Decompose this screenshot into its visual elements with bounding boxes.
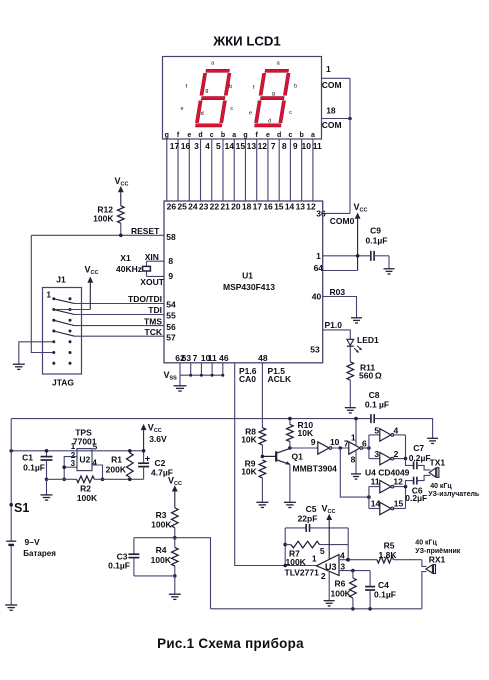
transistor Q1 MMBT3904 <box>262 448 290 464</box>
svg-text:7: 7 <box>271 141 276 151</box>
svg-text:13: 13 <box>296 202 306 212</box>
label J1 <box>56 275 66 285</box>
svg-text:12: 12 <box>306 202 316 212</box>
power Vcc arrow near pin 36 <box>354 202 368 271</box>
label RX1 <box>429 555 446 565</box>
svg-text:CA0: CA0 <box>239 374 256 384</box>
wire R8 to base node <box>261 445 265 458</box>
label R7 100K <box>286 548 307 567</box>
wire feedback left vertical <box>283 528 287 567</box>
wire inverter 10 to 7 <box>331 446 349 450</box>
label R3 100K <box>151 510 172 530</box>
svg-text:14: 14 <box>371 499 381 509</box>
LED LED1 <box>347 339 362 353</box>
svg-text:R4: R4 <box>156 545 167 555</box>
ultrasonic transmitter TX1 <box>429 468 439 478</box>
label pin 5 <box>374 425 379 435</box>
svg-text:RESET: RESET <box>131 226 160 236</box>
svg-text:c: c <box>230 106 233 112</box>
svg-text:+: + <box>145 454 151 465</box>
svg-text:a: a <box>311 132 315 139</box>
svg-text:16: 16 <box>181 141 191 151</box>
wire RESET down to JTAG <box>31 235 54 352</box>
svg-text:JTAG: JTAG <box>52 378 74 388</box>
svg-text:4: 4 <box>92 458 97 467</box>
svg-text:0.1µF: 0.1µF <box>23 463 45 473</box>
wire regulator bottom line <box>47 478 144 480</box>
svg-text:0.1 µF: 0.1 µF <box>365 400 389 410</box>
svg-text:4: 4 <box>394 425 399 435</box>
capacitor C3 <box>128 538 139 576</box>
svg-text:56: 56 <box>166 322 176 332</box>
svg-text:6: 6 <box>362 438 367 448</box>
svg-text:f: f <box>256 132 259 139</box>
label 9-V Батарея <box>23 537 56 558</box>
svg-text:11: 11 <box>371 477 380 487</box>
wire input inverter 14 <box>369 508 380 510</box>
label Q1 <box>292 451 304 461</box>
svg-text:VSS: VSS <box>164 370 178 382</box>
label LED1 <box>357 335 379 345</box>
wire COM0 pin 36 stub <box>323 212 350 214</box>
power Vcc arrow 3.6V <box>141 423 167 451</box>
svg-text:100K: 100K <box>151 520 172 530</box>
label pin 2 <box>394 449 399 459</box>
svg-text:2: 2 <box>394 449 399 459</box>
wire battery rail left <box>10 419 12 605</box>
svg-text:10: 10 <box>301 141 311 151</box>
svg-text:TDO/TDI: TDO/TDI <box>128 294 162 304</box>
pin number 9 <box>168 271 173 281</box>
wire Q1 emitter to ground <box>289 465 291 503</box>
label U3 pin 1 <box>312 554 317 564</box>
switch S1 <box>9 501 29 515</box>
wire R3 to divider node <box>173 528 177 540</box>
wire U3 pin 3 node <box>339 569 370 573</box>
svg-text:C9: C9 <box>370 226 381 236</box>
svg-text:40: 40 <box>312 291 322 301</box>
svg-text:X1: X1 <box>120 253 131 263</box>
svg-text:VCC: VCC <box>85 264 99 276</box>
label P1.5 ACLK <box>268 366 292 384</box>
wire pin 40 R03 <box>323 297 357 318</box>
wire pin 64 stub <box>323 270 358 272</box>
regulator U2 TPS77001 body <box>77 449 92 471</box>
pin number 56 <box>166 322 176 332</box>
wire node to C7 <box>406 459 414 466</box>
power Vcc arrow above U3 <box>322 503 336 559</box>
svg-text:3: 3 <box>340 561 345 571</box>
svg-text:0.1µF: 0.1µF <box>366 236 388 246</box>
svg-text:d: d <box>277 132 281 139</box>
ground below R9 <box>256 502 268 507</box>
label U3 <box>325 562 337 572</box>
label pin 12 <box>393 477 403 487</box>
ground at J1 <box>13 364 25 369</box>
ground below C9 <box>384 269 395 274</box>
svg-text:c: c <box>210 132 214 139</box>
svg-text:57: 57 <box>166 332 176 342</box>
svg-text:5: 5 <box>216 141 221 151</box>
wire C1 ground <box>46 479 48 495</box>
svg-text:MSP430F413: MSP430F413 <box>223 282 275 292</box>
J1 header pins <box>52 297 71 364</box>
svg-text:22pF: 22pF <box>298 514 318 524</box>
label pin 1 <box>351 432 356 442</box>
svg-text:0.1µF: 0.1µF <box>374 590 396 600</box>
resistor R4 <box>172 538 179 578</box>
label pin 7 <box>344 439 349 449</box>
svg-text:36: 36 <box>316 208 326 218</box>
svg-text:48: 48 <box>258 353 268 363</box>
svg-text:g: g <box>272 91 275 97</box>
svg-text:RX1: RX1 <box>429 555 446 565</box>
svg-text:a: a <box>211 61 215 67</box>
svg-text:f: f <box>253 85 255 91</box>
capacitor C6 <box>414 477 417 485</box>
svg-text:5: 5 <box>374 425 379 435</box>
svg-text:0.2µF: 0.2µF <box>405 493 427 503</box>
label C4 0.1uF <box>374 580 396 599</box>
svg-text:C5: C5 <box>306 504 317 514</box>
wire U4 Vdd pin 1 <box>354 417 358 445</box>
caption Рис.1 Схема прибора <box>157 636 304 651</box>
wire to RX1 top <box>422 560 427 567</box>
battery 9V <box>6 541 16 545</box>
J1 switch contacts to JTAG wires <box>54 299 75 336</box>
label R2 100K <box>77 483 98 503</box>
LCD digit 2 segment letters <box>249 61 297 125</box>
wire R12 to RESET line <box>120 223 122 235</box>
pin number 58 <box>166 232 176 242</box>
svg-text:7: 7 <box>344 439 349 449</box>
label JTAG <box>52 378 74 388</box>
label U3 pin 4 <box>340 551 345 561</box>
label C6 0.2uF <box>405 485 427 502</box>
wire input inverter 11 <box>369 486 380 488</box>
wire COM vertical to COM0 <box>349 78 351 213</box>
label pin 18 COM <box>322 106 342 130</box>
ground below U3 <box>324 601 335 606</box>
op-amp U3 TLV2771 <box>317 555 340 576</box>
LCD pin letters row <box>165 132 315 139</box>
svg-text:U3: U3 <box>325 562 337 572</box>
svg-text:XIN: XIN <box>145 252 159 262</box>
wire R10 top <box>288 417 292 425</box>
pin 1 marker J1 <box>47 290 52 299</box>
LCD pin numbers <box>170 141 322 151</box>
svg-text:g: g <box>205 88 208 94</box>
wire C7 to TX1 <box>417 465 431 470</box>
wire COM1 from LCD <box>322 77 351 79</box>
LCD digit 2 (7-segment) <box>254 69 291 127</box>
svg-text:25: 25 <box>177 202 187 212</box>
wire outputs 4 and 2 join <box>393 435 408 461</box>
capacitor C4 <box>365 571 375 609</box>
resistor R6 <box>350 571 357 609</box>
wire R9 to ground <box>261 478 263 502</box>
label MMBT3904 <box>293 463 338 473</box>
wire feedback right vertical <box>346 528 350 562</box>
label P1.6 CA0 <box>239 366 257 384</box>
svg-text:10K: 10K <box>241 435 257 445</box>
svg-text:b: b <box>300 132 304 139</box>
label C1 0.1uF <box>22 453 45 473</box>
svg-text:b: b <box>229 84 232 90</box>
pin number 53 <box>310 345 320 355</box>
wire R5 to RX1 <box>394 559 422 561</box>
svg-text:4: 4 <box>205 141 210 151</box>
wire TDI <box>75 314 165 316</box>
svg-text:C8: C8 <box>369 390 380 400</box>
ground below Vss <box>174 386 187 391</box>
svg-text:d: d <box>201 111 204 117</box>
LCD digit 1 (7-segment) <box>195 69 232 127</box>
svg-text:3.6V: 3.6V <box>149 434 167 444</box>
label U3 pin 2 <box>321 571 326 581</box>
resistor R11 <box>347 362 354 380</box>
svg-text:ЖКИ LCD1: ЖКИ LCD1 <box>212 33 281 48</box>
svg-text:3: 3 <box>71 459 76 468</box>
wire TCK <box>75 335 165 337</box>
svg-text:18: 18 <box>242 202 252 212</box>
svg-text:R1: R1 <box>111 455 122 465</box>
ground right of C8 <box>427 438 438 443</box>
svg-text:26: 26 <box>167 202 177 212</box>
wire P1.6 CA0 to op-amp <box>235 363 317 566</box>
inverter U4 11-12 <box>380 480 394 492</box>
ground below U4 pin 8 <box>351 474 361 479</box>
wire COM18 from LCD <box>322 117 352 121</box>
wire bias bus <box>211 607 422 611</box>
svg-text:8: 8 <box>168 256 173 266</box>
svg-text:COM: COM <box>322 120 342 130</box>
svg-text:P1.0: P1.0 <box>325 320 343 330</box>
svg-text:a: a <box>277 61 281 67</box>
svg-text:8: 8 <box>282 141 287 151</box>
wire U2 pin 4 <box>92 465 104 481</box>
svg-text:TDI: TDI <box>148 305 162 315</box>
pin number 64 <box>314 263 324 273</box>
wire J1 ground pin <box>19 342 54 364</box>
svg-text:d: d <box>268 118 271 124</box>
svg-text:560 Ω: 560 Ω <box>359 370 382 380</box>
label R03 <box>330 287 346 297</box>
svg-text:23: 23 <box>199 202 209 212</box>
svg-text:TCK: TCK <box>145 327 163 337</box>
wire battery positive bus <box>11 418 371 420</box>
svg-text:g: g <box>243 132 247 139</box>
svg-text:COM: COM <box>322 80 342 90</box>
MCU bottom pin numbers <box>175 353 268 363</box>
wire outputs 12 and 15 join <box>393 485 408 509</box>
capacitor C9 <box>371 251 389 269</box>
label C8 0.1uF <box>365 390 389 410</box>
label R10 10K <box>298 420 314 438</box>
resistor R1 <box>127 449 134 481</box>
connector J1 body <box>43 288 82 375</box>
resistor R7 <box>285 541 348 548</box>
svg-text:1: 1 <box>351 432 356 442</box>
svg-text:20: 20 <box>231 202 241 212</box>
svg-text:R03: R03 <box>330 287 346 297</box>
svg-text:e: e <box>266 132 270 139</box>
svg-text:U2: U2 <box>79 454 90 464</box>
label RESET <box>131 226 160 236</box>
ultrasonic receiver RX1 <box>426 565 436 574</box>
pin number 8 <box>168 256 173 266</box>
svg-text:11: 11 <box>208 353 217 363</box>
label X1 40KHz <box>116 253 142 274</box>
svg-text:ACLK: ACLK <box>268 374 292 384</box>
wire R10 to collector <box>288 442 292 450</box>
svg-text:100K: 100K <box>77 493 98 503</box>
pin number 54 <box>166 300 176 310</box>
pin number 40 <box>312 291 322 301</box>
wire node to C6 <box>406 481 414 487</box>
microcontroller U1 MSP430F413 body <box>164 201 323 363</box>
svg-text:9–V: 9–V <box>25 537 40 547</box>
svg-text:54: 54 <box>166 300 176 310</box>
wire XOUT pin 9 <box>147 275 165 277</box>
svg-text:LED1: LED1 <box>357 335 379 345</box>
svg-text:15: 15 <box>274 202 284 212</box>
svg-text:40KHz: 40KHz <box>116 264 142 274</box>
pin number 1 <box>316 251 321 261</box>
svg-text:1: 1 <box>326 64 331 74</box>
svg-text:5: 5 <box>93 443 98 452</box>
svg-text:100K: 100K <box>151 555 172 565</box>
svg-text:12: 12 <box>393 477 403 487</box>
svg-text:b: b <box>221 132 225 139</box>
resistor R2 <box>77 476 95 483</box>
label 40 kHz receiver <box>415 540 460 556</box>
label R6 100K <box>331 579 352 599</box>
ground below C1 <box>41 495 53 500</box>
svg-text:VCC: VCC <box>115 176 129 188</box>
svg-text:VCC: VCC <box>168 475 182 487</box>
wire down to inverters 11 14 <box>340 448 370 509</box>
capacitor C5 <box>285 524 348 532</box>
svg-text:21: 21 <box>220 202 230 212</box>
svg-text:8: 8 <box>351 454 356 464</box>
label C5 22pF <box>298 504 318 524</box>
svg-text:C1: C1 <box>22 453 33 463</box>
svg-text:9: 9 <box>293 141 298 151</box>
svg-text:10: 10 <box>330 437 340 447</box>
svg-text:63: 63 <box>182 353 192 363</box>
svg-text:1.8K: 1.8K <box>379 550 398 560</box>
wire U2 pin 2 3 feedback <box>62 457 77 482</box>
svg-text:16: 16 <box>263 202 273 212</box>
label R4 100K <box>151 545 172 565</box>
svg-text:f: f <box>177 132 180 139</box>
label U4 CD4049 <box>365 468 410 478</box>
svg-text:12: 12 <box>258 141 268 151</box>
wire R11 to ground <box>349 380 351 408</box>
svg-text:1: 1 <box>47 290 52 299</box>
wire divider to bias bus <box>175 538 211 609</box>
label pin 15 <box>394 499 404 509</box>
resistor R9 <box>259 460 266 478</box>
label TDI <box>148 305 162 315</box>
svg-text:VCC: VCC <box>322 503 336 515</box>
svg-text:VCC: VCC <box>148 423 162 435</box>
wire input inverter 5 <box>369 434 380 436</box>
svg-text:TX1: TX1 <box>430 457 446 467</box>
svg-text:9: 9 <box>168 271 173 281</box>
wire C8 to ground <box>374 419 432 439</box>
label TMS <box>144 316 162 326</box>
wire crystal vertical <box>146 261 148 276</box>
ground below battery <box>5 605 17 610</box>
title ЖКИ LCD1 label <box>212 33 281 48</box>
label U1 MSP430F413 <box>223 271 275 293</box>
resistor R8 <box>259 428 266 445</box>
resistor R10 <box>287 424 294 441</box>
wire battery rail to regulator <box>9 449 143 453</box>
svg-text:1: 1 <box>312 554 317 564</box>
inverter U4 3-2 <box>380 452 394 464</box>
label C9 0.1uF <box>366 226 388 246</box>
label U3 pin 5 <box>320 546 325 556</box>
svg-text:58: 58 <box>166 232 176 242</box>
label XIN <box>145 252 159 262</box>
svg-text:40 кГц: 40 кГц <box>415 540 437 547</box>
capacitor C1 <box>41 449 53 481</box>
label pin 11 <box>371 477 380 487</box>
label U3 pin 3 <box>340 561 345 571</box>
svg-text:0.2µF: 0.2µF <box>409 453 431 463</box>
svg-text:g: g <box>165 132 169 139</box>
svg-text:13: 13 <box>247 141 257 151</box>
svg-text:10K: 10K <box>241 466 257 476</box>
svg-text:TLV2771: TLV2771 <box>285 568 320 578</box>
wire U3 ground pin 2 <box>328 571 330 600</box>
wire C6 to TX1 <box>417 475 431 480</box>
resistor R12 <box>118 206 125 223</box>
svg-text:УЗ-излучатель: УЗ-излучатель <box>428 491 480 498</box>
capacitor C7 <box>414 462 417 470</box>
crystal X1 40KHz <box>143 266 151 271</box>
label C3 0.1uF <box>108 552 130 571</box>
svg-text:15: 15 <box>394 499 404 509</box>
capacitor C8 <box>371 414 374 423</box>
svg-text:R3: R3 <box>156 510 167 520</box>
label P1.0 <box>325 320 343 330</box>
svg-text:C7: C7 <box>413 443 424 453</box>
label 40 kHz emitter <box>428 483 480 498</box>
wire TMS <box>75 325 165 327</box>
svg-text:MMBT3904: MMBT3904 <box>293 463 338 473</box>
svg-text:J1: J1 <box>56 275 66 285</box>
wire C3 branch top <box>134 537 175 539</box>
label XOUT <box>140 277 164 287</box>
inverter U4 9-10 <box>318 442 332 454</box>
svg-text:b: b <box>294 84 297 90</box>
wires LCD segment pins to MCU <box>167 139 313 201</box>
svg-text:100K: 100K <box>331 588 352 598</box>
svg-text:c: c <box>288 132 292 139</box>
label U2 <box>79 454 90 464</box>
svg-text:R6: R6 <box>335 579 346 589</box>
label TPS 77001 <box>73 427 97 446</box>
wire LED to R11 <box>349 346 351 362</box>
label R12 100K <box>93 204 114 223</box>
power Vcc arrow above R3 <box>168 475 182 508</box>
ground below R03 <box>351 318 362 323</box>
svg-text:e: e <box>180 106 183 112</box>
